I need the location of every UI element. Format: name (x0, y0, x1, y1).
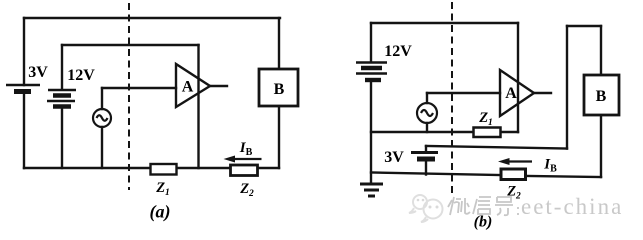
watermark text weixinhao (448, 197, 518, 215)
dashed boundary line (circuit a) (128, 3, 130, 190)
wire: circuit (a) bottom wire right segment (257, 167, 279, 169)
svg-text:A: A (505, 85, 517, 102)
wire: circuit (b) bottom wire left segment (371, 173, 500, 176)
battery B4 3V (circuit b) (411, 153, 438, 160)
wire: circuit (b) B top vertical (600, 26, 602, 74)
svg-text:Z1: Z1 (478, 110, 493, 128)
svg-text:12V: 12V (67, 67, 95, 84)
impedance Z2 (circuit a) (231, 165, 258, 176)
wire: circuit (b) bottom wire right segment (527, 176, 601, 177)
battery B3 12V (circuit b) (356, 63, 387, 81)
wire: circuit (a) AC source top stub (101, 88, 103, 109)
wire: circuit (b) top wire (371, 22, 518, 24)
svg-text:A: A (182, 79, 194, 96)
op-amp A (circuit a) (176, 64, 210, 107)
wire: circuit (b) amplifier output stub (534, 92, 551, 94)
wire: circuit (b) right loop left vertical (566, 26, 568, 149)
wire: circuit (a) amplifier input wire (102, 87, 176, 89)
wire: circuit (a) inner loop top wire (12V to amplifier rail) (62, 44, 199, 46)
wire: circuit (b) AC source bottom stub (426, 123, 428, 132)
wire: circuit (a) vertical through amplifier to bottom (197, 45, 199, 168)
wire: circuit (b) left rail upper (370, 23, 372, 62)
AC source G1 (circuit a) (93, 109, 111, 127)
wire: circuit (b) AC source top stub (426, 93, 428, 103)
wire: circuit (b) supply vertical through amplifier (517, 23, 519, 132)
block B (circuit a) (259, 69, 298, 106)
svg-text:Z2: Z2 (506, 184, 521, 202)
wire: circuit (a) left rail upper (23, 18, 25, 85)
wire: circuit (a) AC source bottom stub (101, 127, 103, 168)
block B (circuit b) (584, 75, 619, 115)
wire: circuit (a) bottom wire left segment (24, 167, 150, 169)
wire: circuit (b) 3V battery bottom stub (425, 161, 427, 175)
wire: circuit (a) left rail lower (23, 93, 25, 168)
wire: circuit (b) left rail lower to ground (370, 82, 372, 183)
svg-text:(b): (b) (474, 214, 493, 231)
svg-text:12V: 12V (384, 43, 412, 60)
current arrow IB (circuit b) (498, 158, 532, 165)
wire: circuit (b) feedback wire to 3V battery (426, 146, 567, 149)
svg-text:B: B (596, 88, 607, 105)
wire: circuit (a) bottom wire middle segment (177, 167, 231, 169)
impedance Z1 (circuit a) (151, 164, 177, 175)
svg-text:IB: IB (543, 157, 557, 175)
wire: circuit (b) right loop top (567, 25, 601, 27)
battery B1 3V (circuit a) (6, 85, 40, 92)
wire: circuit (a) right vertical upper (top wire to B) (278, 18, 280, 68)
wire: circuit (b) 3V battery top stub (425, 146, 427, 151)
op-amp A (circuit b) (500, 70, 534, 116)
svg-text:3V: 3V (384, 149, 404, 166)
current arrow IB (circuit a) (224, 156, 262, 163)
svg-text:eet-china: eet-china (521, 194, 623, 219)
wire: circuit (b) B bottom vertical (600, 116, 602, 177)
svg-text:Z1: Z1 (155, 180, 170, 198)
svg-text:Z2: Z2 (239, 181, 254, 199)
wire: circuit (b) amplifier input wire (427, 92, 500, 94)
wire: circuit (a) right vertical lower (B to bottom wire) (278, 107, 280, 168)
svg-text:IB: IB (239, 140, 253, 158)
wire: circuit (b) Z1 right wire (501, 131, 518, 133)
AC source G2 (circuit b) (417, 103, 437, 123)
wire: circuit (a) amplifier output stub (210, 85, 227, 87)
wire: circuit (a) top wire (24, 17, 280, 19)
wire: circuit (a) 12V rail upper (61, 45, 63, 89)
dashed boundary line (circuit b) (451, 2, 453, 196)
battery B2 12V (circuit a) (47, 90, 76, 107)
impedance Z2 (circuit b) (501, 169, 526, 180)
ground symbol (circuit b) (360, 184, 383, 196)
svg-text:B: B (274, 81, 285, 98)
svg-text:3V: 3V (28, 64, 48, 81)
impedance Z1 (circuit b) (474, 128, 501, 138)
svg-text:(a): (a) (150, 202, 171, 223)
watermark wechat icon (409, 195, 443, 222)
wire: circuit (b) mid wire to Z1 (371, 131, 473, 133)
wire: circuit (a) 12V rail lower (61, 107, 63, 168)
